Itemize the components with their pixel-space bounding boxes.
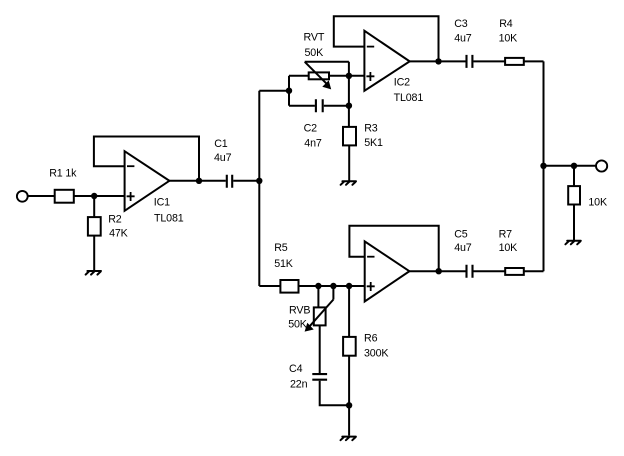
svg-text:R2: R2 xyxy=(108,213,122,225)
svg-text:10K: 10K xyxy=(588,197,608,209)
svg-text:51K: 51K xyxy=(274,258,294,270)
svg-text:4n7: 4n7 xyxy=(304,138,322,150)
svg-text:TL081: TL081 xyxy=(394,92,424,104)
svg-text:47K: 47K xyxy=(109,228,129,240)
svg-text:C1: C1 xyxy=(214,138,228,150)
svg-text:50K: 50K xyxy=(288,319,308,331)
svg-text:R6: R6 xyxy=(364,333,378,345)
svg-text:300K: 300K xyxy=(364,347,389,359)
svg-text:R4: R4 xyxy=(499,18,513,30)
svg-text:C5: C5 xyxy=(454,228,468,240)
svg-text:22n: 22n xyxy=(290,379,308,391)
svg-text:4u7: 4u7 xyxy=(214,152,232,164)
svg-text:TL081: TL081 xyxy=(154,213,184,225)
svg-text:R5: R5 xyxy=(274,242,288,254)
svg-text:C3: C3 xyxy=(454,18,468,30)
svg-text:4u7: 4u7 xyxy=(454,32,472,44)
svg-text:50K: 50K xyxy=(305,47,325,59)
svg-text:C4: C4 xyxy=(289,363,303,375)
svg-text:4u7: 4u7 xyxy=(454,242,472,254)
svg-text:R7: R7 xyxy=(499,228,513,240)
svg-text:R3: R3 xyxy=(364,122,378,134)
svg-text:C2: C2 xyxy=(304,122,318,134)
svg-text:10K: 10K xyxy=(499,32,519,44)
svg-text:IC2: IC2 xyxy=(394,77,410,89)
svg-text:RVB: RVB xyxy=(289,305,310,317)
svg-text:10K: 10K xyxy=(499,242,519,254)
svg-text:RVT: RVT xyxy=(304,31,325,43)
svg-text:IC1: IC1 xyxy=(154,197,170,209)
svg-text:5K1: 5K1 xyxy=(364,137,383,149)
svg-text:R1 1k: R1 1k xyxy=(49,167,77,179)
